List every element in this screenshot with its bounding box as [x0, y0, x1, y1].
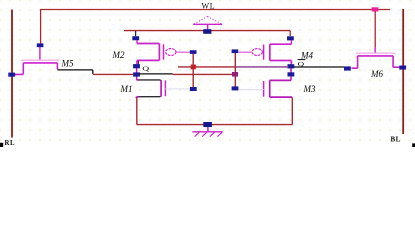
svg-text:M3: M3 — [303, 84, 316, 94]
node Q column — [137, 67, 138, 80]
wire cross-couple rail B (Q to right gates) black part — [139, 73, 173, 75]
svg-text:RL: RL — [5, 140, 16, 147]
svg-text:M6: M6 — [370, 69, 383, 79]
node Qbar column — [290, 64, 292, 80]
pin square M6 left terminal — [344, 66, 351, 70]
pin square M2 source — [132, 36, 139, 40]
wire rail B red part — [173, 73, 233, 75]
wire M5 to node Q — [57, 70, 92, 74]
pin square VDD tap — [203, 29, 211, 34]
wire M5 gate drop from WL — [40, 9, 42, 44]
wire right gate vertical — [234, 53, 236, 87]
wire M5 gate stem — [39, 47, 41, 60]
corner mark bottom-left — [0, 143, 3, 147]
wire VDD stub to M2 — [135, 31, 137, 36]
wire M1 source to ground rail — [136, 98, 138, 125]
pin square node Q upper — [133, 64, 140, 68]
wire left gate vertical — [192, 53, 194, 88]
transistor M2 (PMOS) — [137, 40, 190, 64]
pin square ground tap — [203, 122, 212, 127]
pin square node Qbar upper — [288, 64, 295, 68]
pin square M5 on left bit line — [8, 73, 15, 77]
svg-text:WL: WL — [202, 2, 216, 11]
svg-text:BL: BL — [391, 135, 401, 143]
wire cross-couple rail A (Qbar to left gates) — [178, 66, 235, 68]
corner mark bottom-right — [412, 143, 415, 147]
transistor M6 (access NMOS) — [352, 53, 403, 68]
wire ground rail — [137, 124, 292, 126]
transistor M5 (access NMOS) — [15, 60, 60, 74]
svg-text:M1: M1 — [120, 84, 133, 94]
wire M3 source to ground rail — [291, 98, 293, 125]
pin square M4 source — [287, 36, 294, 40]
wire left bit line — [11, 10, 13, 138]
pin square left gates top (M2 gate) — [190, 50, 197, 54]
wire WL word line — [41, 9, 390, 11]
svg-text:M5: M5 — [61, 58, 74, 68]
pin square M6 on right bit line — [399, 66, 406, 70]
pin square M5 gate — [37, 43, 44, 47]
wire right bit line — [402, 9, 404, 134]
wire M6 gate drop from WL — [374, 11, 376, 48]
transistor M3 (NMOS) — [238, 80, 292, 97]
pin square node Q lower — [133, 72, 140, 76]
pin square node Qbar lower — [288, 72, 295, 76]
junction rail B / right gate vertical (purple) — [232, 72, 238, 77]
pin square right gates top (M4 gate) — [232, 49, 239, 53]
wire M5-Q red segment — [93, 73, 133, 75]
ground symbol — [192, 127, 222, 137]
svg-text:M4: M4 — [300, 50, 313, 60]
wire VDD drop to M4 — [289, 31, 291, 36]
wire VDD rail — [124, 30, 290, 32]
pin square left gates bottom (M1 gate) — [190, 87, 197, 91]
junction WL-M6 gate (pink) — [372, 7, 379, 11]
pin square right gates bottom (M3 gate) — [232, 86, 239, 90]
wire M6 gate stem — [374, 48, 376, 54]
junction rail A / left gate vertical (red) — [191, 65, 196, 70]
transistor M4 (PMOS) — [238, 41, 291, 65]
wire node Qbar to M6 — [294, 66, 344, 68]
svg-text:M2: M2 — [112, 50, 125, 60]
transistor M1 (NMOS) — [136, 80, 190, 98]
svg-text:Q: Q — [142, 65, 149, 72]
power symbol VDD — [193, 17, 222, 30]
